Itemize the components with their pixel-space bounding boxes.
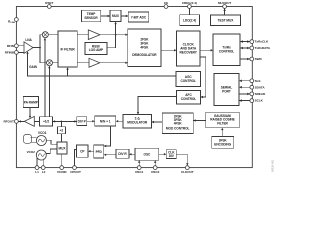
wire AFC to sigma-delta [137, 97, 177, 115]
pin CLKOUT [181, 166, 194, 174]
LNA amplifier [24, 38, 38, 69]
wire mixer2 to IF filter [53, 62, 59, 64]
pin SLE [250, 79, 261, 83]
svg-text:LDO(1:4): LDO(1:4) [183, 18, 196, 22]
gaussian raised cosine filter box [206, 112, 240, 128]
wire sigma-delta to N divider [116, 120, 123, 122]
7-bit ADC box [128, 12, 149, 22]
limiter amplifier A2 [89, 58, 100, 67]
pin CREG(1:4) [182, 1, 197, 8]
pin MUXOUT [218, 1, 231, 8]
wire 3FSK encoding to GAUSSIAN filter [221, 128, 223, 137]
wire AGC gain line [26, 51, 176, 76]
svg-text:L2: L2 [42, 170, 46, 174]
svg-text:FILTER: FILTER [217, 121, 228, 125]
pin RFOUT [3, 120, 18, 124]
svg-text:OSC2: OSC2 [151, 170, 160, 174]
pin OSC1 [135, 166, 144, 174]
wire N divider to PFD [104, 126, 111, 147]
wire limiter A2 to demodulator [100, 62, 128, 64]
svg-text:SDATA: SDATA [255, 85, 266, 89]
wire DIV P to N divider [87, 120, 95, 122]
svg-text:DIV: DIV [169, 154, 175, 158]
pin OSC2 [151, 166, 160, 174]
wire demodulator to CDR [161, 49, 177, 51]
svg-text:RFINB: RFINB [5, 51, 15, 55]
svg-text:LOG AMP: LOG AMP [89, 48, 104, 52]
wire limiter A1 to demodulator [100, 34, 128, 36]
PA amplifier [24, 116, 34, 126]
svg-text:RFOUT: RFOUT [3, 120, 14, 124]
wire VCO1 to vco mux [46, 140, 57, 144]
IF filter box [58, 31, 77, 67]
wire TEST MUX to MUXOUT [223, 9, 225, 16]
TxRx control box [213, 34, 240, 65]
pin TxRxCLK [250, 40, 269, 44]
wire PA RAMP to PA [29, 108, 31, 119]
wire PFD to CP [88, 150, 94, 152]
chip boundary [16, 7, 252, 168]
svg-text:L1: L1 [35, 170, 39, 174]
svg-text:CPOUT: CPOUT [70, 170, 81, 174]
wire CDR to AFC control [200, 57, 206, 98]
wire SWD output [240, 58, 250, 61]
svg-text:DIV P: DIV P [78, 119, 87, 123]
RSSI log amp box [85, 42, 107, 54]
external inductor loop [24, 135, 37, 144]
mixer M1 [42, 32, 48, 38]
svg-text:SCLK: SCLK [255, 99, 264, 103]
svg-text:GAIN: GAIN [29, 65, 38, 69]
wire TxRxDATA bidirectional [240, 47, 250, 50]
DIV P box [77, 117, 87, 126]
VCO2 oscillator [27, 150, 47, 160]
svg-text:VCOIN: VCOIN [57, 170, 67, 174]
wire LO to mixer1 [44, 38, 46, 117]
svg-text:CONTROL: CONTROL [181, 97, 197, 101]
svg-text:PA RAMP: PA RAMP [24, 100, 39, 104]
pin SCLK [250, 99, 264, 103]
wire L2 to VCO2 [42, 159, 44, 165]
pin L2 [41, 166, 45, 174]
pin RSET [45, 1, 53, 8]
wire SCLK input [239, 99, 250, 102]
wire GAUSSIAN filter to MOD control [193, 119, 206, 121]
PA ramp box [23, 97, 39, 108]
svg-text:OSC1: OSC1 [135, 170, 144, 174]
svg-text:CE: CE [164, 1, 168, 5]
wire TxRxCLK bidirectional [240, 40, 250, 43]
pin TxRxDATA [250, 46, 271, 50]
svg-text:TxRxCLK: TxRxCLK [255, 40, 269, 44]
svg-text:N/N + 1: N/N + 1 [100, 119, 111, 123]
wire mux to 7-BIT ADC [121, 15, 128, 17]
wire TEMP SENSOR to mux [101, 15, 110, 17]
svg-text:09320-001: 09320-001 [271, 159, 275, 172]
VCO1 oscillator [36, 131, 46, 146]
pin VCOIN [57, 166, 67, 174]
svg-text:OSC: OSC [144, 153, 152, 157]
svg-text:SENSOR: SENSOR [84, 16, 98, 20]
wire SDATA input [239, 86, 250, 89]
OSC box [135, 148, 159, 160]
adc mux box [110, 10, 121, 21]
svg-text:CONTROL: CONTROL [219, 50, 235, 54]
charge pump CP box [77, 145, 89, 157]
LDO box [180, 15, 200, 26]
svg-text:VCO2: VCO2 [27, 150, 36, 154]
CLK DIV box [166, 150, 176, 159]
wire RFINB to LNA [18, 51, 24, 53]
svg-text:4FSK: 4FSK [140, 46, 149, 50]
wire CREG to LDO [188, 8, 190, 14]
svg-text:DIV R: DIV R [118, 152, 127, 156]
figure number [271, 159, 275, 172]
svg-text:÷1/2: ÷1/2 [43, 120, 49, 124]
svg-text:4FSK: 4FSK [174, 122, 183, 126]
wire div2 to vco mux [60, 134, 62, 142]
wire OSC to CLK DIV [159, 153, 167, 155]
svg-text:IF FILTER: IF FILTER [61, 47, 76, 51]
svg-text:7-BIT ADC: 7-BIT ADC [131, 15, 147, 19]
wire LO to mixer2 [48, 66, 50, 117]
wire VCO node to dividers [53, 120, 77, 127]
pin CPOUT [70, 166, 81, 174]
svg-text:RECOVERY: RECOVERY [180, 50, 198, 54]
svg-text:MUX: MUX [59, 146, 67, 150]
svg-text:TEST MUX: TEST MUX [218, 18, 235, 22]
pin RFIN [7, 44, 18, 48]
wire OSC2 to OSC [154, 160, 156, 165]
svg-text:TxRxDATA: TxRxDATA [255, 46, 271, 50]
pin SWD [250, 57, 263, 61]
wire SREAD output [239, 93, 250, 96]
wire CP to CPOUT [75, 150, 77, 166]
wire OSC1 to OSC [138, 160, 140, 165]
sigma-delta modulator box [123, 115, 151, 129]
divide-by-2 box [57, 127, 65, 134]
svg-text:CREG(1:4): CREG(1:4) [182, 1, 197, 5]
svg-text:ENCODING: ENCODING [214, 142, 231, 146]
vco mux box [57, 142, 67, 154]
svg-text:LNA: LNA [10, 21, 15, 24]
wire IF filter to limiter A2 [77, 62, 89, 64]
wire VCO2 to vco mux [46, 149, 57, 154]
svg-text:MODULATOR: MODULATOR [127, 121, 148, 125]
svg-text:SWD: SWD [255, 57, 263, 61]
wire RFIN to LNA [18, 45, 24, 47]
wire DIV R to PFD [104, 154, 116, 156]
svg-text:CONTROL: CONTROL [180, 79, 196, 83]
svg-text:CLKOUT: CLKOUT [181, 170, 194, 174]
wire MOD control to sigma-delta [151, 121, 162, 123]
svg-text:RFIN: RFIN [7, 44, 15, 48]
svg-text:DEMODULATOR: DEMODULATOR [132, 53, 157, 57]
svg-text:RSET: RSET [45, 1, 53, 5]
pin SREAD [250, 92, 266, 96]
wire CLK DIV to CLKOUT [176, 154, 188, 165]
wire mixer1 to IF filter [48, 34, 58, 36]
svg-text:SREAD: SREAD [255, 92, 266, 96]
svg-text:LNA: LNA [25, 38, 32, 42]
divide-by-1/2 box [40, 117, 53, 126]
pin SDATA [250, 85, 265, 89]
mod control box [162, 113, 193, 134]
svg-text:PORT: PORT [222, 89, 231, 93]
svg-text:MUX: MUX [112, 14, 120, 18]
wire LNA output split to mixers [33, 35, 47, 63]
svg-text:PFD: PFD [96, 150, 103, 154]
svg-text:MUXOUT: MUXOUT [218, 1, 231, 5]
wire VCOIN to vco mux [61, 154, 63, 166]
AGC control box [176, 72, 201, 87]
pin RLNA [8, 18, 18, 25]
wire OSC to DIV R [129, 153, 135, 155]
svg-text:÷2: ÷2 [60, 129, 64, 133]
DIV R box [116, 149, 129, 158]
PFD box [94, 145, 104, 158]
N/N+1 divider box [95, 116, 116, 126]
wire L1 to VCO2 [36, 158, 38, 166]
wire RSSI riser to ADC mux [107, 22, 117, 48]
wire divider to PA [34, 120, 39, 122]
wire IF filter to limiter A1 [77, 34, 88, 36]
limiter amplifier A1 [88, 30, 100, 40]
test mux box [211, 15, 241, 26]
pin CE [164, 1, 168, 8]
3FSK encoding box [212, 136, 234, 148]
mixer M2 [47, 60, 53, 66]
wire PA to RFOUT [18, 120, 24, 122]
temp sensor box [81, 10, 100, 21]
wire SLE input [239, 80, 250, 83]
demodulator box [128, 29, 161, 67]
svg-text:SLE: SLE [255, 79, 261, 83]
svg-text:MOD CONTROL: MOD CONTROL [166, 127, 190, 131]
wire CDR to TxRx control [200, 49, 213, 51]
svg-text:VCO1: VCO1 [38, 131, 47, 135]
pin RFINB [5, 51, 19, 55]
clock and data recovery box [177, 31, 201, 66]
pin L1 [35, 166, 39, 174]
AFC control box [177, 90, 201, 104]
serial port box [214, 74, 239, 106]
